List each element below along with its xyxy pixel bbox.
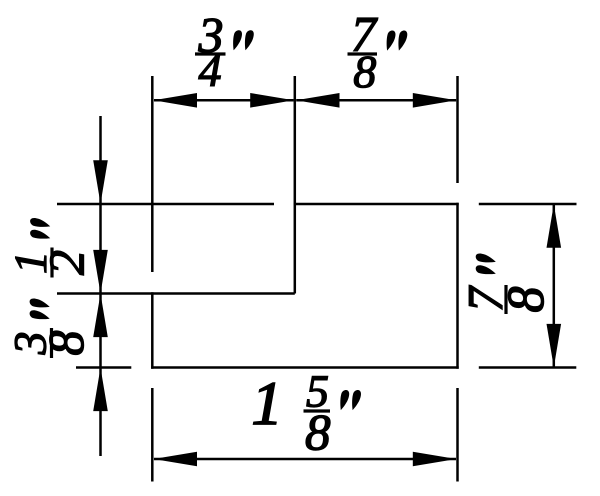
extension line top left (3/4 dim) [151, 76, 154, 272]
arrowhead 3/8 top (points down at step line) [93, 250, 108, 294]
label 7/8 inch (right dimension, rotated) [469, 253, 543, 314]
part step vertical edge with extension line for 3/4 and 7/8 dims [294, 76, 297, 294]
extension line right of bottom edge (right 7/8 dim) [479, 366, 577, 369]
part bottom edge [151, 366, 459, 369]
label 3/4 inch (top left dimension) [195, 19, 254, 86]
arrowhead right 7/8 up [547, 204, 562, 248]
dimension line top 7/8 shaft [296, 99, 456, 102]
part right edge [456, 203, 459, 369]
dimension line left column shaft (1/2 and 3/8 dims) [99, 116, 102, 456]
dimension line bottom 1 5/8 shaft [154, 458, 456, 461]
arrowhead top 7/8 right [413, 93, 457, 108]
arrowhead 1/2 bottom (points up at step line) [93, 294, 108, 338]
part top edge [294, 203, 459, 206]
arrowhead 1/2 top (points down at top edge) [93, 160, 108, 204]
arrowhead 3/8 bottom (points up at bottom edge) [93, 368, 108, 412]
extension line right of top edge (right 7/8 dim) [479, 203, 577, 206]
extension line bottom right (1 5/8 dim) [456, 388, 459, 482]
extension line left of bottom edge (3/8 dim) [76, 366, 131, 369]
label 7/8 inch (top right dimension) [348, 18, 408, 88]
extension line left of top edge (1/2 dim) [57, 203, 274, 206]
arrowhead top 7/8 left [296, 93, 340, 108]
dimension line right 7/8 shaft [553, 204, 556, 367]
dimension line 3/4 shaft [154, 99, 294, 102]
label 3/8 inch (left lower dimension, rotated) [15, 298, 83, 358]
part left edge [151, 292, 154, 368]
arrowhead bottom 1 5/8 right [413, 452, 457, 467]
arrowhead bottom 1 5/8 left [154, 452, 198, 467]
arrowhead 3/4 left [154, 93, 198, 108]
extension line bottom left (1 5/8 dim) [151, 388, 154, 482]
part step horizontal edge with extension line for 1/2 and 3/8 dims [57, 292, 295, 295]
arrowhead 3/4 right [250, 93, 294, 108]
label 1/2 inch (left upper dimension, rotated) [16, 218, 84, 278]
extension line top right (7/8 dim) [456, 76, 459, 183]
arrowhead right 7/8 down [547, 324, 562, 368]
label 1 5/8 inch (bottom dimension) [254, 376, 361, 450]
